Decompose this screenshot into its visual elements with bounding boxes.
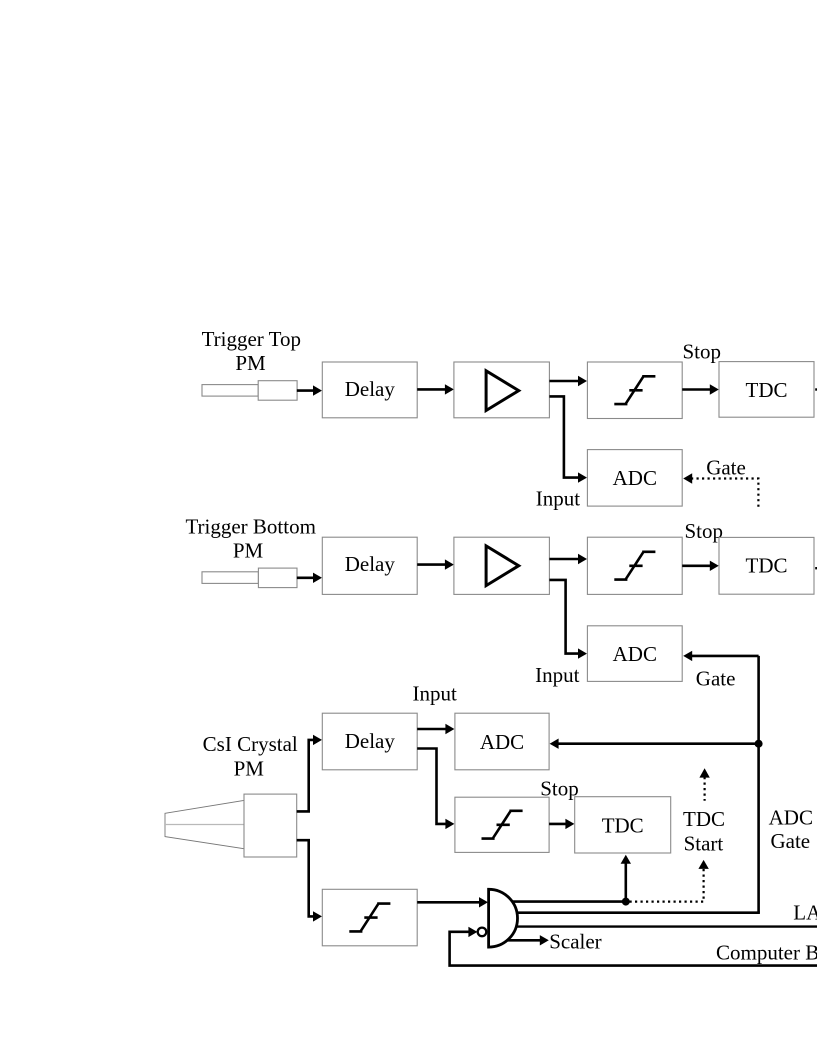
gate trunk wire (ADC Gate) bbox=[757, 656, 760, 913]
output wire C: LAM line bbox=[508, 925, 817, 927]
svg-text:TDC: TDC bbox=[683, 807, 725, 831]
delay box DELAY2 bbox=[322, 537, 417, 594]
svg-text:Stop: Stop bbox=[540, 776, 579, 800]
wire AMP1 to DISC1 bbox=[549, 376, 587, 386]
svg-text:Trigger Bottom: Trigger Bottom bbox=[185, 514, 316, 538]
photomultiplier PM2 tube bbox=[202, 572, 258, 584]
photomultiplier PM1 base bbox=[258, 381, 297, 401]
ADC box ADC1 bbox=[587, 450, 682, 507]
dotted TDC-start wire (lower segment) bbox=[630, 860, 709, 902]
photomultiplier PM3 box bbox=[244, 794, 297, 857]
TDC box TDC3 bbox=[575, 797, 671, 853]
svg-text:Gate: Gate bbox=[770, 829, 810, 853]
discriminator box DISC3 bbox=[455, 797, 549, 852]
wire junction to TDC3 (solid up arrow) bbox=[621, 855, 631, 902]
svg-text:PM: PM bbox=[235, 351, 266, 375]
label: CsI Crystal PM bbox=[203, 732, 298, 780]
junction node on output A bbox=[622, 898, 630, 906]
svg-text:Stop: Stop bbox=[685, 519, 724, 543]
svg-text:PM: PM bbox=[234, 756, 265, 780]
svg-text:TDC: TDC bbox=[746, 554, 788, 578]
svg-text:TDC: TDC bbox=[602, 813, 644, 837]
svg-text:Computer Busy: Computer Busy bbox=[716, 940, 817, 964]
discriminator box DISC2 bbox=[587, 537, 682, 594]
gate wire into ADC3 from trunk bbox=[550, 739, 759, 749]
delay box DELAY3 bbox=[322, 713, 417, 770]
coincidence gate U1 (AND with inverted input) bbox=[489, 889, 518, 947]
junction node on trunk at ADC3 gate bbox=[755, 740, 763, 748]
svg-text:TDC: TDC bbox=[746, 378, 788, 402]
svg-text:CsI Crystal: CsI Crystal bbox=[203, 732, 298, 756]
svg-text:Delay: Delay bbox=[345, 729, 396, 753]
svg-text:ADC: ADC bbox=[480, 730, 524, 754]
scaler output wire bbox=[503, 935, 549, 945]
computer busy feedback wire bbox=[450, 927, 817, 966]
wire AMP1 to ADC1 bbox=[549, 396, 587, 482]
wire PM3 to DISC4 bbox=[297, 840, 322, 921]
svg-text:LAM: LAM bbox=[793, 901, 817, 925]
wire AMP2 to ADC2 bbox=[549, 580, 587, 659]
delay box DELAY1 bbox=[322, 362, 417, 418]
wire PM1 to DELAY1 bbox=[297, 385, 322, 395]
ADC box ADC3 bbox=[455, 713, 549, 770]
svg-text:Input: Input bbox=[536, 487, 580, 511]
wire DISC2 to TDC2 bbox=[682, 561, 719, 571]
wire DISC4 to coincidence gate U1 bbox=[417, 897, 488, 907]
discriminator box DISC4 bbox=[322, 889, 417, 946]
label: Trigger Bottom PM bbox=[185, 514, 316, 562]
label ADC Gate bbox=[769, 805, 813, 853]
wire DELAY3 to ADC3 bbox=[417, 724, 454, 734]
wire DELAY2 to AMP2 bbox=[417, 559, 454, 569]
svg-text:Input: Input bbox=[413, 682, 457, 706]
wire DISC1 to TDC1 bbox=[682, 384, 719, 394]
amplifier box AMP2 bbox=[454, 537, 550, 594]
svg-text:ADC: ADC bbox=[613, 642, 657, 666]
wire PM2 to DELAY2 bbox=[297, 573, 322, 583]
discriminator box DISC1 bbox=[587, 362, 682, 419]
wire DELAY3 to DISC3 bbox=[417, 749, 454, 830]
svg-text:ADC: ADC bbox=[769, 805, 813, 829]
svg-text:Input: Input bbox=[535, 663, 579, 687]
output wire B: U1 to ADC gate trunk bbox=[505, 911, 760, 914]
photomultiplier PM2 base bbox=[258, 568, 297, 588]
dotted TDC-start wire (upper segment) bbox=[699, 768, 709, 801]
svg-text:PM: PM bbox=[233, 539, 264, 563]
CsI crystal light guide bbox=[165, 800, 244, 848]
stub TDC2 output at canvas edge bbox=[815, 567, 817, 569]
TDC box TDC1 bbox=[719, 362, 814, 418]
svg-text:Stop: Stop bbox=[683, 340, 722, 364]
wire DELAY1 to AMP1 bbox=[417, 384, 454, 394]
svg-text:Gate: Gate bbox=[706, 456, 746, 480]
photomultiplier PM1 tube bbox=[202, 385, 258, 397]
output wire A: U1 to TDC3 start junction bbox=[500, 900, 626, 903]
inverted-input bubble on U1 bbox=[478, 928, 487, 937]
svg-text:Trigger Top: Trigger Top bbox=[202, 327, 301, 351]
label: Trigger Top PM bbox=[202, 327, 301, 375]
ADC box ADC2 bbox=[587, 626, 682, 682]
svg-text:Start: Start bbox=[684, 831, 724, 855]
dotted gate wire into ADC1 bbox=[683, 473, 758, 509]
svg-text:Delay: Delay bbox=[345, 552, 396, 576]
label TDC Start bbox=[683, 807, 725, 855]
svg-text:Gate: Gate bbox=[696, 667, 736, 691]
wire PM3 to DELAY3 bbox=[297, 735, 322, 812]
wire DISC3 to TDC3 bbox=[549, 819, 574, 829]
stub TDC1 output at canvas edge bbox=[815, 388, 817, 390]
svg-text:Scaler: Scaler bbox=[549, 929, 601, 953]
svg-text:ADC: ADC bbox=[613, 466, 657, 490]
amplifier box AMP1 bbox=[454, 362, 550, 418]
TDC box TDC2 bbox=[719, 537, 814, 594]
gate wire into ADC2 from trunk bbox=[683, 651, 758, 661]
wire AMP2 to DISC2 bbox=[549, 554, 587, 564]
svg-text:Delay: Delay bbox=[345, 377, 396, 401]
